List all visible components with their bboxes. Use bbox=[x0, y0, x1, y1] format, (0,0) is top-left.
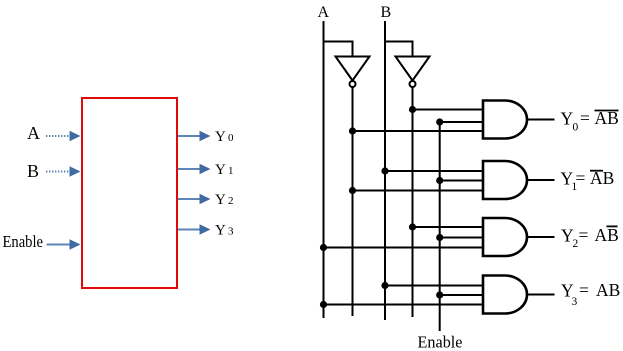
svg-text:Y: Y bbox=[215, 162, 226, 178]
svg-text:1: 1 bbox=[228, 165, 234, 177]
svg-text:AB: AB bbox=[596, 280, 620, 300]
svg-text:3: 3 bbox=[572, 296, 578, 308]
svg-text:Y: Y bbox=[215, 192, 226, 208]
svg-text:=: = bbox=[579, 225, 589, 245]
svg-text:=: = bbox=[579, 280, 589, 300]
svg-text:B: B bbox=[27, 161, 39, 181]
svg-text:2: 2 bbox=[228, 195, 234, 207]
svg-text:Y: Y bbox=[215, 223, 226, 239]
svg-text:Enable: Enable bbox=[418, 333, 463, 351]
svg-text:Enable: Enable bbox=[3, 232, 44, 251]
svg-text:3: 3 bbox=[228, 226, 234, 238]
svg-text:AB: AB bbox=[595, 225, 619, 245]
svg-text:1: 1 bbox=[572, 181, 578, 193]
svg-text:A: A bbox=[318, 4, 330, 21]
svg-text:0: 0 bbox=[573, 122, 579, 134]
svg-text:=: = bbox=[580, 108, 590, 128]
svg-text:B: B bbox=[381, 4, 392, 21]
svg-text:A: A bbox=[27, 123, 40, 143]
svg-text:0: 0 bbox=[228, 132, 234, 144]
svg-text:2: 2 bbox=[573, 238, 579, 250]
svg-text:Y: Y bbox=[215, 129, 226, 145]
